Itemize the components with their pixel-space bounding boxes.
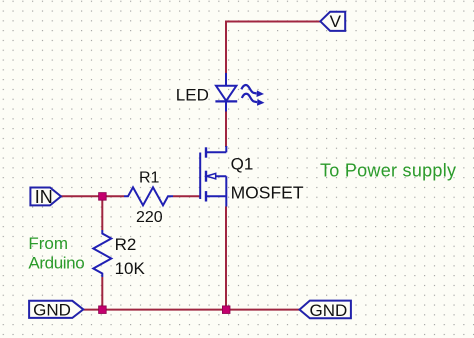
ground rail wire — [83, 309, 299, 311]
svg-text:GND: GND — [33, 301, 71, 320]
note From Arduino — [28, 234, 84, 272]
resistor R1 — [124, 187, 173, 205]
wire IN port to junction — [61, 195, 102, 197]
junction at MOSFET source/ground rail — [222, 306, 230, 314]
port GND left — [29, 301, 83, 320]
wire MOSFET source down to ground rail — [225, 207, 227, 310]
svg-text:R1: R1 — [139, 170, 160, 187]
wire junction to R1 — [102, 195, 124, 197]
svg-text:LED: LED — [176, 86, 209, 105]
wire R2 to ground rail — [101, 277, 103, 310]
label R1 — [139, 170, 160, 187]
svg-text:Arduino: Arduino — [28, 253, 84, 272]
label 10K — [115, 259, 146, 278]
label 220 — [136, 209, 163, 226]
wire R1 to MOSFET gate — [173, 195, 200, 197]
svg-text:Q1: Q1 — [231, 155, 254, 174]
port IN — [30, 187, 61, 207]
MOSFET Q1 — [200, 146, 226, 207]
LED emission arrow lower — [242, 94, 265, 106]
svg-text:MOSFET: MOSFET — [231, 183, 304, 203]
LED emission arrow upper — [241, 85, 264, 97]
note To Power supply — [320, 161, 456, 181]
svg-text:R2: R2 — [115, 235, 137, 254]
svg-text:To Power supply: To Power supply — [320, 161, 456, 181]
wire LED cathode to MOSFET drain — [225, 111, 227, 147]
svg-text:220: 220 — [136, 209, 163, 226]
label R2 — [115, 235, 137, 254]
LED D1 — [215, 73, 237, 112]
svg-text:10K: 10K — [115, 259, 146, 278]
port GND right — [300, 301, 351, 321]
wire corner down to LED anode — [225, 21, 227, 74]
svg-text:From: From — [28, 234, 68, 253]
wire junction down to R2 — [101, 196, 103, 230]
svg-text:V: V — [330, 12, 342, 31]
resistor R2 — [93, 230, 111, 277]
label LED — [176, 86, 209, 105]
port V — [320, 12, 345, 31]
junction at R2/ground rail — [99, 306, 107, 314]
junction at IN/R1/R2 node — [99, 193, 107, 201]
svg-text:GND: GND — [310, 301, 348, 320]
label MOSFET — [231, 183, 304, 203]
svg-text:IN: IN — [35, 187, 53, 207]
wire V-port to corner — [226, 21, 320, 23]
label Q1 — [231, 155, 254, 174]
